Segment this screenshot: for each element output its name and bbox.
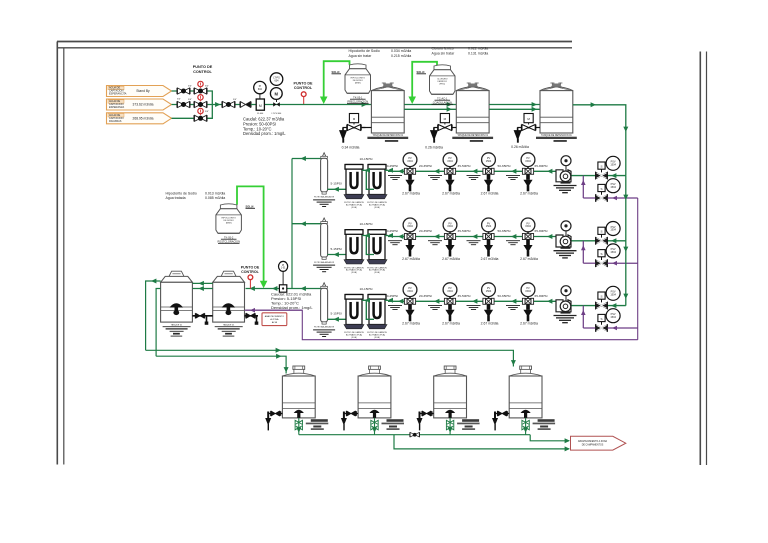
svg-text:(FRC): (FRC) [439, 84, 445, 86]
svg-text:Hipoclorito de Sodio: Hipoclorito de Sodio [349, 49, 380, 53]
dosing line NSE-2 postcloracion [237, 186, 264, 281]
wire: clarifier interconnect upper [192, 282, 212, 284]
node: inlet AGUA DE CAPTACION PALMIRAS [107, 113, 172, 124]
svg-text:ESPERANCITA: ESPERANCITA [109, 93, 127, 96]
wire: row1 to merge [207, 91, 212, 105]
svg-text:PRECLORACION: PRECLORACION [347, 99, 368, 103]
controller LT-PS-604 [270, 73, 283, 86]
storage tank B4 [492, 366, 555, 435]
wire: row3 to merge [207, 105, 212, 119]
wire: purple recirculation main riser [637, 198, 639, 340]
svg-text:DE CAMPAMENTOS: DE CAMPAMENTOS [582, 444, 604, 447]
drawing frame left border [56, 42, 58, 465]
wire: inlet row 3 [172, 117, 208, 119]
motorized drain valve tank 3 [514, 114, 540, 143]
storage tank B3 [417, 366, 480, 435]
svg-text:FI-604: FI-604 [257, 113, 264, 115]
svg-text:LT-PV-604: LT-PV-604 [272, 113, 283, 115]
svg-text:3/4": 3/4" [233, 99, 237, 101]
gauge PI oval [282, 271, 284, 285]
wire: main line to tank 1 [295, 104, 371, 106]
wire: inlet row 1 [172, 90, 208, 92]
red tag indicator row2 [200, 100, 202, 102]
svg-text:0.34 m3/dia: 0.34 m3/dia [342, 145, 360, 149]
clarifier tank 02 [213, 271, 245, 336]
wire: clarifier interconnect lower [192, 288, 212, 290]
clarifier bottom drain piping [192, 315, 212, 317]
dosing line NSE-1 [324, 61, 350, 97]
svg-text:373.62 m3/dia: 373.62 m3/dia [133, 103, 154, 107]
svg-text:TC-AC-1: TC-AC-1 [437, 96, 448, 100]
svg-text:0.131 m3/dia: 0.131 m3/dia [468, 52, 488, 56]
header valve [410, 432, 420, 437]
dosing tank HIPOCLORITO DE SODIO (NSE) postclor [216, 204, 242, 233]
svg-text:TK-05-1: TK-05-1 [353, 95, 363, 99]
valve V-105 [194, 115, 207, 121]
svg-text:Densidad prom.: 1mg/L: Densidad prom.: 1mg/L [271, 305, 313, 310]
valve V-101 [177, 88, 190, 94]
svg-text:0.215 m3/dia: 0.215 m3/dia [391, 54, 411, 58]
control valve LV-604 [276, 99, 278, 102]
drawing frame right border [699, 52, 701, 466]
wire: clarified supply line B [156, 356, 286, 373]
drawing frame top border [57, 41, 572, 43]
svg-text:CONTROL: CONTROL [193, 70, 212, 74]
svg-text:ALTA: ALTA [272, 321, 278, 324]
svg-text:Densidad prom.: 1mg/L: Densidad prom.: 1mg/L [243, 131, 286, 136]
wire: header branch to campamentos lower [394, 435, 569, 449]
svg-text:268.95 m3/dia: 268.95 m3/dia [133, 117, 154, 121]
svg-text:PI: PI [282, 265, 285, 267]
treatment train row 1 [292, 153, 638, 209]
svg-text:POSTCLORACION: POSTCLORACION [217, 239, 240, 243]
motorized drain valve tank 2 [430, 114, 456, 143]
wire: purple from clarifier 2 [245, 309, 303, 311]
dosing line FRC [412, 62, 437, 98]
svg-text:3/4": 3/4" [205, 85, 209, 87]
svg-text:0.085 m3/dia: 0.085 m3/dia [205, 196, 225, 200]
storage tank B1 [265, 366, 328, 435]
svg-text:Agua tratada: Agua tratada [166, 196, 186, 200]
wire: tank3 to distribution riser [573, 105, 626, 176]
valve V-103 [177, 101, 190, 107]
treatment train row 2 [292, 218, 638, 274]
wire: header to campamentos upper [530, 435, 569, 441]
red tag indicator row3 [200, 114, 202, 116]
motorized drain valve tank 1 [339, 114, 365, 143]
svg-text:(NSE): (NSE) [226, 223, 232, 225]
wire: rows collection riser [291, 159, 293, 289]
svg-text:SOL.N: SOL.N [332, 70, 340, 74]
svg-text:PUNTO DE: PUNTO DE [294, 81, 314, 85]
svg-text:0.26 m3/dia: 0.26 m3/dia [511, 145, 529, 149]
tank TK-RT-03 [536, 83, 577, 142]
treatment train row 3 [292, 283, 638, 339]
node: inlet AGUA DE CAPTACION ESPERANZA [107, 99, 172, 110]
wire: distribution riser rows 1-3 [625, 176, 627, 306]
svg-text:3/4": 3/4" [188, 85, 192, 87]
svg-text:0.034 m3/dia: 0.034 m3/dia [391, 49, 411, 53]
svg-text:PALMIRAS: PALMIRAS [109, 120, 122, 123]
svg-text:CONTROL: CONTROL [241, 270, 260, 274]
svg-text:M: M [259, 104, 262, 108]
dosing tank HIPOCLORITO DE SODIO (NSE) preclor [345, 64, 371, 93]
svg-text:A ZONA: A ZONA [270, 318, 279, 321]
wire: tank2 to tank3 double line [489, 104, 540, 106]
wire: clarifier 1 outlet upper to down leg [146, 281, 161, 350]
valve V-102 [194, 88, 207, 94]
svg-text:3/4": 3/4" [188, 99, 192, 101]
actuator M circle [270, 88, 282, 100]
svg-text:ABASTECIMIENTO A ZONA: ABASTECIMIENTO A ZONA [578, 440, 608, 443]
svg-text:COAGULACION: COAGULACION [433, 100, 452, 104]
gauge PI-604 [259, 94, 261, 99]
clarifier tank 01 [161, 271, 193, 336]
wire: check valve to flow meter [251, 104, 295, 106]
svg-text:Agua sin tratar: Agua sin tratar [349, 54, 373, 58]
svg-text:SOL.N: SOL.N [417, 70, 425, 74]
svg-text:0.022 m3/dia: 0.022 m3/dia [468, 47, 488, 51]
svg-text:3/4": 3/4" [177, 99, 181, 101]
wire: clarifier 1 outlet lower to down leg [156, 289, 161, 357]
valve V-104 [194, 101, 207, 107]
svg-text:604: 604 [258, 88, 263, 91]
red tag indicator row1 [200, 87, 202, 89]
check valve CV-1 [240, 102, 251, 108]
svg-text:PUNTO DE: PUNTO DE [241, 265, 260, 269]
svg-text:3/4": 3/4" [205, 111, 209, 113]
red supply box ABASTECIMIENTO A ZONA ALTA [262, 313, 287, 326]
svg-text:CONTROL: CONTROL [294, 86, 313, 90]
svg-text:604: 604 [275, 79, 280, 82]
svg-text:0.013 m3/dia: 0.013 m3/dia [205, 191, 225, 195]
svg-text:Hipoclorito de Sodio: Hipoclorito de Sodio [166, 191, 197, 195]
dosing tank CLORURO FERRICO (FRC) coagulacion [430, 65, 456, 94]
tank TK-RT-02 [452, 83, 493, 142]
tank TK-RT-01 [367, 83, 408, 142]
wire: bottom header [299, 434, 530, 436]
svg-text:ABASTECIMIENTO: ABASTECIMIENTO [265, 315, 285, 318]
node: inlet AGUA DE CAPTACION ESPERANCITA (stand by) [107, 86, 172, 97]
wire: treated water line to clarifier [246, 288, 293, 290]
svg-text:Cloruro ferrico: Cloruro ferrico [432, 47, 454, 51]
flow meter box 2 [279, 285, 286, 292]
wire: clarified supply line A [146, 350, 514, 366]
svg-text:(NSE): (NSE) [355, 83, 361, 85]
svg-text:1-01: 1-01 [281, 268, 286, 270]
svg-text:TK-05-2: TK-05-2 [224, 235, 234, 239]
svg-text:M: M [275, 91, 279, 96]
wire: purple recirculation bottom run [246, 310, 638, 340]
svg-text:Agua sin tratar: Agua sin tratar [432, 52, 456, 56]
clarifier 2 drain piping [245, 315, 259, 317]
svg-text:ESPERANZA: ESPERANZA [109, 106, 124, 109]
flow meter M box [256, 99, 264, 110]
wire: inlet row 2 (main) [172, 104, 241, 106]
node: outlet ABASTECIMIENTO A ZONA DE CAMPAMENTOS [571, 436, 626, 450]
svg-text:0.26 m3/dia: 0.26 m3/dia [425, 145, 443, 149]
svg-text:PUNTO DE: PUNTO DE [193, 65, 213, 69]
wire: tank1 to tank2 double line [404, 104, 456, 106]
storage tank B2 [341, 366, 404, 435]
svg-text:Stand By: Stand By [136, 89, 150, 93]
valve V-106 [222, 101, 235, 107]
svg-text:SOL.N: SOL.N [246, 204, 254, 208]
control point lollipop 3 [249, 280, 251, 289]
control point lollipop 2 [303, 97, 305, 105]
